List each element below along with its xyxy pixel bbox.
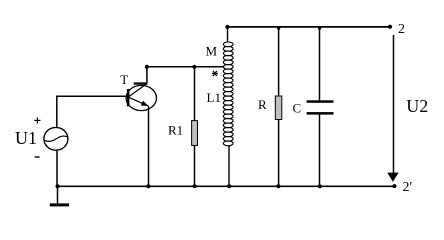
label - — [35, 156, 40, 158]
wire collector to coil tap — [147, 66, 224, 68]
node terminal 2' — [392, 184, 396, 188]
resistor R — [275, 27, 282, 186]
node C bottom — [318, 184, 322, 188]
transistor Q1 (T) — [126, 82, 156, 110]
svg-text:T: T — [120, 72, 128, 87]
svg-text:U1: U1 — [15, 128, 37, 148]
svg-text:2: 2 — [398, 22, 405, 37]
svg-text:U2: U2 — [406, 96, 428, 116]
wire emitter down — [148, 106, 150, 186]
node R bottom — [276, 184, 280, 188]
node coil top — [225, 25, 229, 29]
resistor R1 — [192, 67, 198, 187]
node R1 bottom — [193, 184, 197, 188]
node collector — [145, 65, 149, 69]
wire collector up — [146, 67, 148, 83]
wire bottom rail — [58, 185, 395, 187]
node R1 top — [192, 65, 196, 69]
node emitter/rail — [146, 184, 150, 188]
source U1 — [44, 127, 68, 186]
node terminal 2 — [388, 25, 392, 29]
svg-text:L1: L1 — [207, 90, 221, 105]
svg-text:2′: 2′ — [403, 179, 413, 194]
wire U2 measurement line — [393, 35, 395, 173]
svg-text:R: R — [258, 97, 267, 112]
ground — [50, 186, 69, 206]
svg-text:R1: R1 — [168, 122, 183, 137]
junction tick C top — [318, 28, 322, 31]
junction tick R top — [277, 28, 281, 31]
inductor L1 — [223, 27, 233, 186]
capacitor C — [307, 27, 334, 186]
svg-text:M: M — [206, 44, 218, 59]
polarity mark * — [212, 71, 218, 76]
svg-text:C: C — [293, 100, 302, 115]
wire top rail — [227, 26, 390, 28]
wire source to base — [57, 96, 127, 127]
node coil bottom — [227, 184, 231, 188]
arrow U2 — [387, 173, 398, 182]
label + — [34, 117, 40, 123]
node (source bottom junction) — [56, 184, 60, 188]
